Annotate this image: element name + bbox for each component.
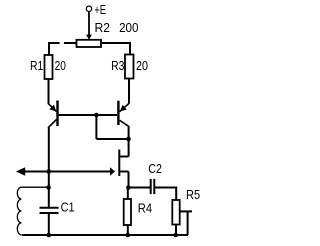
- svg-text:C1: C1: [61, 199, 75, 214]
- svg-text:R2: R2: [95, 20, 111, 35]
- svg-text:+E: +E: [94, 2, 106, 17]
- svg-text:R5: R5: [186, 187, 200, 202]
- svg-text:20: 20: [136, 58, 148, 73]
- svg-text:C2: C2: [148, 161, 162, 176]
- svg-text:R1: R1: [30, 58, 43, 73]
- svg-text:R3: R3: [111, 58, 124, 73]
- svg-text:200: 200: [119, 20, 138, 35]
- svg-text:R4: R4: [138, 201, 152, 216]
- svg-text:20: 20: [55, 58, 66, 73]
